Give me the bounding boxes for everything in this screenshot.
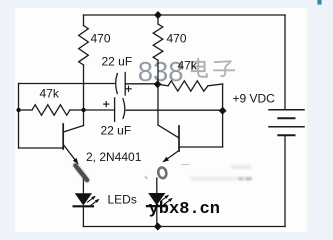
svg-text:47k: 47k bbox=[178, 59, 198, 73]
svg-text:470: 470 bbox=[167, 32, 187, 46]
svg-text:2, 2N4401: 2, 2N4401 bbox=[86, 150, 142, 164]
svg-text:22 uF: 22 uF bbox=[102, 54, 133, 68]
svg-text:470: 470 bbox=[91, 32, 111, 46]
svg-text:47k: 47k bbox=[40, 87, 60, 101]
svg-text:ybx8.cn: ybx8.cn bbox=[149, 200, 220, 219]
svg-text:+9 VDC: +9 VDC bbox=[233, 91, 276, 105]
svg-text:22 uF: 22 uF bbox=[101, 123, 132, 137]
svg-text:LEDs: LEDs bbox=[108, 193, 137, 207]
